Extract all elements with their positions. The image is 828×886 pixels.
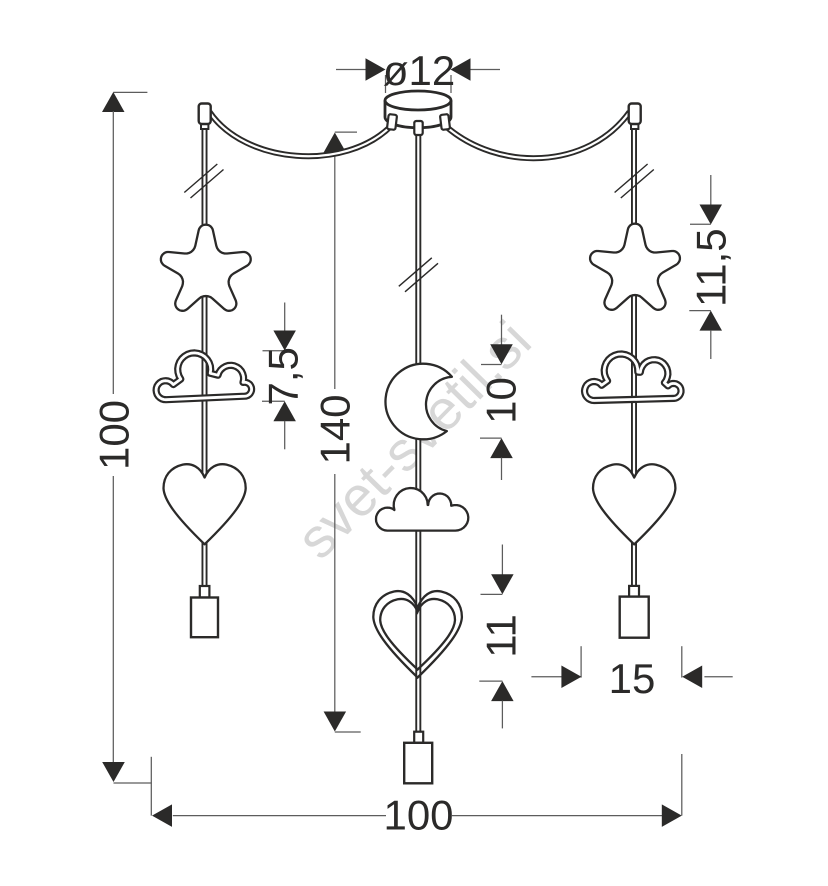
svg-text:140: 140 xyxy=(311,394,358,464)
svg-text:100: 100 xyxy=(383,792,453,839)
svg-text:7,5: 7,5 xyxy=(259,347,306,405)
svg-text:100: 100 xyxy=(90,400,137,470)
svg-text:11,5: 11,5 xyxy=(687,228,734,307)
svg-text:15: 15 xyxy=(609,655,656,702)
svg-text:11: 11 xyxy=(477,614,524,658)
svg-text:10: 10 xyxy=(477,377,524,424)
svg-text:ø12: ø12 xyxy=(383,47,455,94)
